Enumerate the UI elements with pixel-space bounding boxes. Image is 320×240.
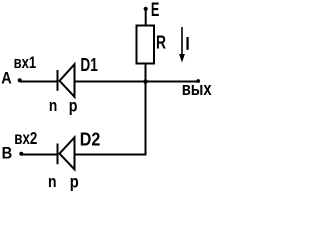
wire E to resistor	[145, 9, 147, 25]
diode D1 cathode bar	[57, 70, 59, 91]
svg-text:p: p	[70, 172, 79, 192]
svg-text:n: n	[49, 96, 57, 115]
svg-text:D2: D2	[80, 130, 101, 150]
junction node dot	[143, 79, 148, 84]
svg-text:p: p	[69, 96, 78, 116]
svg-text:R: R	[156, 33, 166, 53]
terminal dot B	[19, 152, 23, 156]
svg-text:E: E	[151, 0, 160, 21]
svg-text:вх1: вх1	[14, 53, 37, 72]
wire input A to D1	[20, 81, 57, 83]
svg-text:B: B	[2, 144, 13, 163]
terminal dot A	[18, 78, 22, 82]
label I	[186, 37, 188, 50]
svg-text:D1: D1	[80, 55, 97, 75]
svg-text:вых: вых	[182, 78, 212, 99]
wire D1 to output	[76, 81, 200, 83]
diode D1 triangle	[60, 64, 75, 97]
svg-text:A: A	[1, 69, 11, 88]
wire input B to D2	[21, 154, 57, 156]
svg-text:n: n	[48, 172, 57, 191]
output terminal dot	[196, 79, 200, 83]
svg-text:вх2: вх2	[14, 128, 37, 148]
wire resistor to corner (through junction, down to D2 row)	[76, 64, 146, 155]
node E terminal dot	[144, 7, 148, 11]
resistor R1 body	[137, 26, 155, 64]
current arrow I	[181, 27, 183, 59]
diode D2 cathode bar	[57, 144, 59, 165]
diode D2 triangle	[60, 137, 75, 169]
